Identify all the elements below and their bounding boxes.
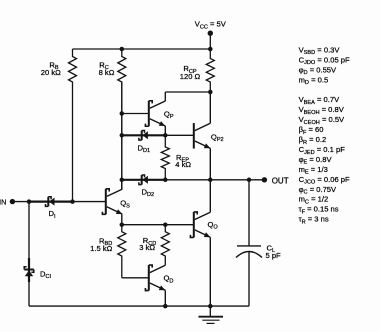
resistor RC 8k xyxy=(118,49,126,189)
diode DCI xyxy=(24,267,34,277)
node RCD top junction xyxy=(163,222,168,227)
wire RC column xyxy=(121,82,123,189)
diode DI xyxy=(46,197,55,207)
transistor QO xyxy=(190,212,210,238)
resistor RBD 1.5k xyxy=(118,225,126,278)
transistor QP2 xyxy=(194,123,211,149)
node QD emitter junction xyxy=(163,304,168,309)
diode DD2 xyxy=(139,175,148,185)
node CL top junction xyxy=(247,178,252,183)
resistor RCD 3k xyxy=(161,225,169,266)
wire QS emitter down xyxy=(121,214,123,224)
wire QP2 collector up xyxy=(209,92,211,123)
node RB bottom junction xyxy=(70,199,75,204)
node DCI junction xyxy=(27,199,32,204)
svg-text:20 kΩ: 20 kΩ xyxy=(41,68,61,77)
node REP bottom junction xyxy=(163,178,168,183)
svg-text:4 kΩ: 4 kΩ xyxy=(175,160,191,169)
wire QD emitter down xyxy=(164,290,166,306)
wire QO collector up xyxy=(209,180,211,212)
diode DD1 xyxy=(139,131,148,141)
node QO collector junction xyxy=(208,178,213,183)
wire IN row xyxy=(12,201,29,203)
wire RBD bottom to QD base xyxy=(122,277,149,279)
wire QO emitter down xyxy=(209,237,211,306)
wire bottom rail xyxy=(29,305,249,307)
wire OUT row with DD2 xyxy=(122,179,166,181)
svg-text:3 kΩ: 3 kΩ xyxy=(139,243,155,252)
transistor QD xyxy=(145,265,165,291)
wire QS collector up xyxy=(121,180,123,189)
wire QS emitter row xyxy=(122,224,194,226)
node R_C top junction xyxy=(120,47,125,52)
node DD1 cathode junction xyxy=(120,133,125,138)
svg-text:OUT: OUT xyxy=(272,176,289,185)
resistor REP 4k xyxy=(161,135,169,180)
transistor QP xyxy=(145,101,165,127)
transistor QS xyxy=(102,189,122,215)
node RCP bottom junction xyxy=(208,90,213,95)
wire QP collector to RCP node xyxy=(165,91,210,93)
wire QP emitter down xyxy=(164,126,166,135)
wire QP base xyxy=(122,113,149,115)
wire DCI column xyxy=(28,202,30,307)
svg-text:8 kΩ: 8 kΩ xyxy=(99,68,115,77)
node RBD top junction xyxy=(120,222,125,227)
resistor RB 20k xyxy=(69,49,77,202)
node ground junction xyxy=(208,304,213,309)
wire DD1 node to QP2 base xyxy=(165,134,194,136)
wire DD1 row xyxy=(122,134,166,136)
resistor RCP 120 xyxy=(206,49,214,92)
node QP base junction xyxy=(120,111,125,116)
node DD2 cathode junction xyxy=(120,178,125,183)
wire QP2 emitter down xyxy=(209,148,211,180)
wire VCC top rail xyxy=(73,48,211,50)
ground xyxy=(199,306,224,323)
node OUT terminal xyxy=(262,177,267,182)
node DD1 anode junction xyxy=(163,133,168,138)
node R_CP top junction xyxy=(208,47,213,52)
capacitor CL 5pF xyxy=(236,180,262,306)
svg-text:5 pF: 5 pF xyxy=(266,251,282,260)
svg-text:1.5 kΩ: 1.5 kΩ xyxy=(90,244,112,253)
svg-text:IN: IN xyxy=(0,197,6,206)
svg-text:120 Ω: 120 Ω xyxy=(180,72,201,81)
